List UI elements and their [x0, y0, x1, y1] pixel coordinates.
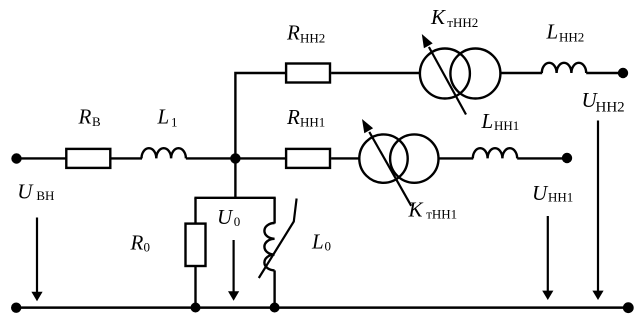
node: HH2 output terminal [618, 68, 628, 78]
svg-text:НН1: НН1 [300, 115, 325, 130]
svg-text:1: 1 [171, 114, 178, 129]
label R_HH2 [286, 21, 325, 46]
wire: L_HH2 to HH2 terminal [586, 72, 623, 74]
wire: K_tHH1 to L_HH1 [438, 157, 473, 159]
inductor L_1 [142, 148, 186, 158]
transformer U=K_tHH2 winding 1 [420, 49, 470, 99]
node: junction R_0 / bottom rail [191, 303, 201, 313]
label U_BH [17, 179, 54, 203]
label U_0 [217, 205, 240, 229]
label L_1 [157, 104, 178, 129]
voltage arrow U_0 [228, 240, 239, 301]
node: HH1 output terminal [562, 153, 572, 163]
variability arrow of K_tHH1 [362, 119, 411, 206]
wire: top connector of R_0 / L_0 parallel branch [194, 197, 275, 199]
svg-text:0: 0 [144, 239, 151, 254]
node A (junction of branches) [230, 153, 240, 163]
label L_HH1 [481, 109, 520, 133]
resistor R_HH2 [286, 64, 330, 83]
transformer K_tHH2 winding 2 [450, 49, 500, 99]
svg-text:K: K [408, 198, 424, 222]
label U_HH2 [582, 88, 625, 116]
transformer K_tHH1 winding 1 [359, 134, 407, 182]
svg-text:K: K [430, 5, 446, 29]
svg-text:ВН: ВН [36, 188, 54, 203]
svg-text:тНН2: тНН2 [447, 15, 478, 30]
wire: connector down to L_0 [273, 198, 275, 224]
resistor R_0 [186, 224, 206, 266]
variability stroke of L_0 (bent line) [259, 199, 297, 279]
voltage arrow U_HH1 [542, 216, 553, 300]
svg-text:L: L [546, 20, 559, 44]
wire: bottom return rail [16, 306, 628, 309]
label U_HH1 [532, 181, 573, 205]
node: HV input terminal (left) [11, 153, 21, 163]
svg-text:НН1: НН1 [494, 118, 519, 133]
label K_tHH1 [408, 198, 458, 222]
label L_HH2 [546, 20, 585, 45]
wire: connector down to R_0 [194, 198, 196, 224]
wire: R_HH2 to transformer K_tHH2 [331, 72, 420, 74]
svg-text:L: L [157, 104, 170, 128]
label R_0 [130, 230, 151, 254]
svg-text:R: R [286, 105, 300, 129]
svg-text:НН1: НН1 [548, 189, 573, 204]
wire: R_B to L_1 [111, 157, 142, 159]
resistor R_HH1 [286, 149, 330, 168]
svg-text:НН2: НН2 [300, 31, 325, 46]
svg-text:НН2: НН2 [596, 100, 625, 116]
wire: left terminal to R_B [17, 157, 67, 159]
svg-text:В: В [92, 114, 101, 129]
resistor R_B [66, 149, 110, 168]
wire: L_1 to node A [186, 157, 236, 159]
svg-text:0: 0 [325, 238, 332, 253]
svg-text:НН2: НН2 [559, 29, 584, 44]
voltage arrow U_BH [31, 218, 42, 302]
svg-text:L: L [311, 229, 324, 253]
inductor L_0 (vertical) [264, 223, 274, 270]
svg-text:R: R [286, 21, 300, 45]
svg-text:тНН1: тНН1 [426, 206, 457, 221]
inductor L_HH1 [473, 148, 517, 158]
svg-text:U: U [217, 205, 234, 229]
label R_HH1 [286, 105, 325, 130]
variability arrow of K_tHH2 [422, 34, 466, 115]
inductor L_HH2 [542, 63, 586, 73]
node: bottom-left terminal [11, 303, 21, 313]
node: bottom-right terminal [623, 302, 634, 313]
svg-text:0: 0 [234, 214, 241, 229]
voltage arrow U_HH2 [592, 121, 603, 301]
svg-text:R: R [130, 230, 144, 254]
wire: L_0 to bottom rail [273, 270, 275, 307]
svg-text:L: L [481, 109, 494, 133]
label K_tHH2 [430, 5, 478, 30]
node: junction L_0 / bottom rail [270, 303, 280, 313]
wire: node A down to magnetizing branch [234, 158, 236, 197]
svg-text:R: R [78, 104, 92, 128]
wire: L_HH1 to HH1 terminal [517, 157, 567, 159]
wire: node A to R_HH1 [235, 157, 286, 159]
wire: K_tHH2 to L_HH2 [500, 72, 542, 74]
svg-text:U: U [17, 179, 34, 203]
transformer K_tHH1 winding 2 [390, 134, 438, 182]
svg-text:U: U [532, 181, 549, 205]
wire: R_HH1 to transformer K_tHH1 [331, 157, 359, 159]
label L_0 [311, 229, 331, 253]
label R_B [78, 104, 102, 129]
wire: vertical riser node A up to HH2 branch [235, 73, 286, 158]
wire: R_0 to bottom rail [194, 266, 196, 308]
